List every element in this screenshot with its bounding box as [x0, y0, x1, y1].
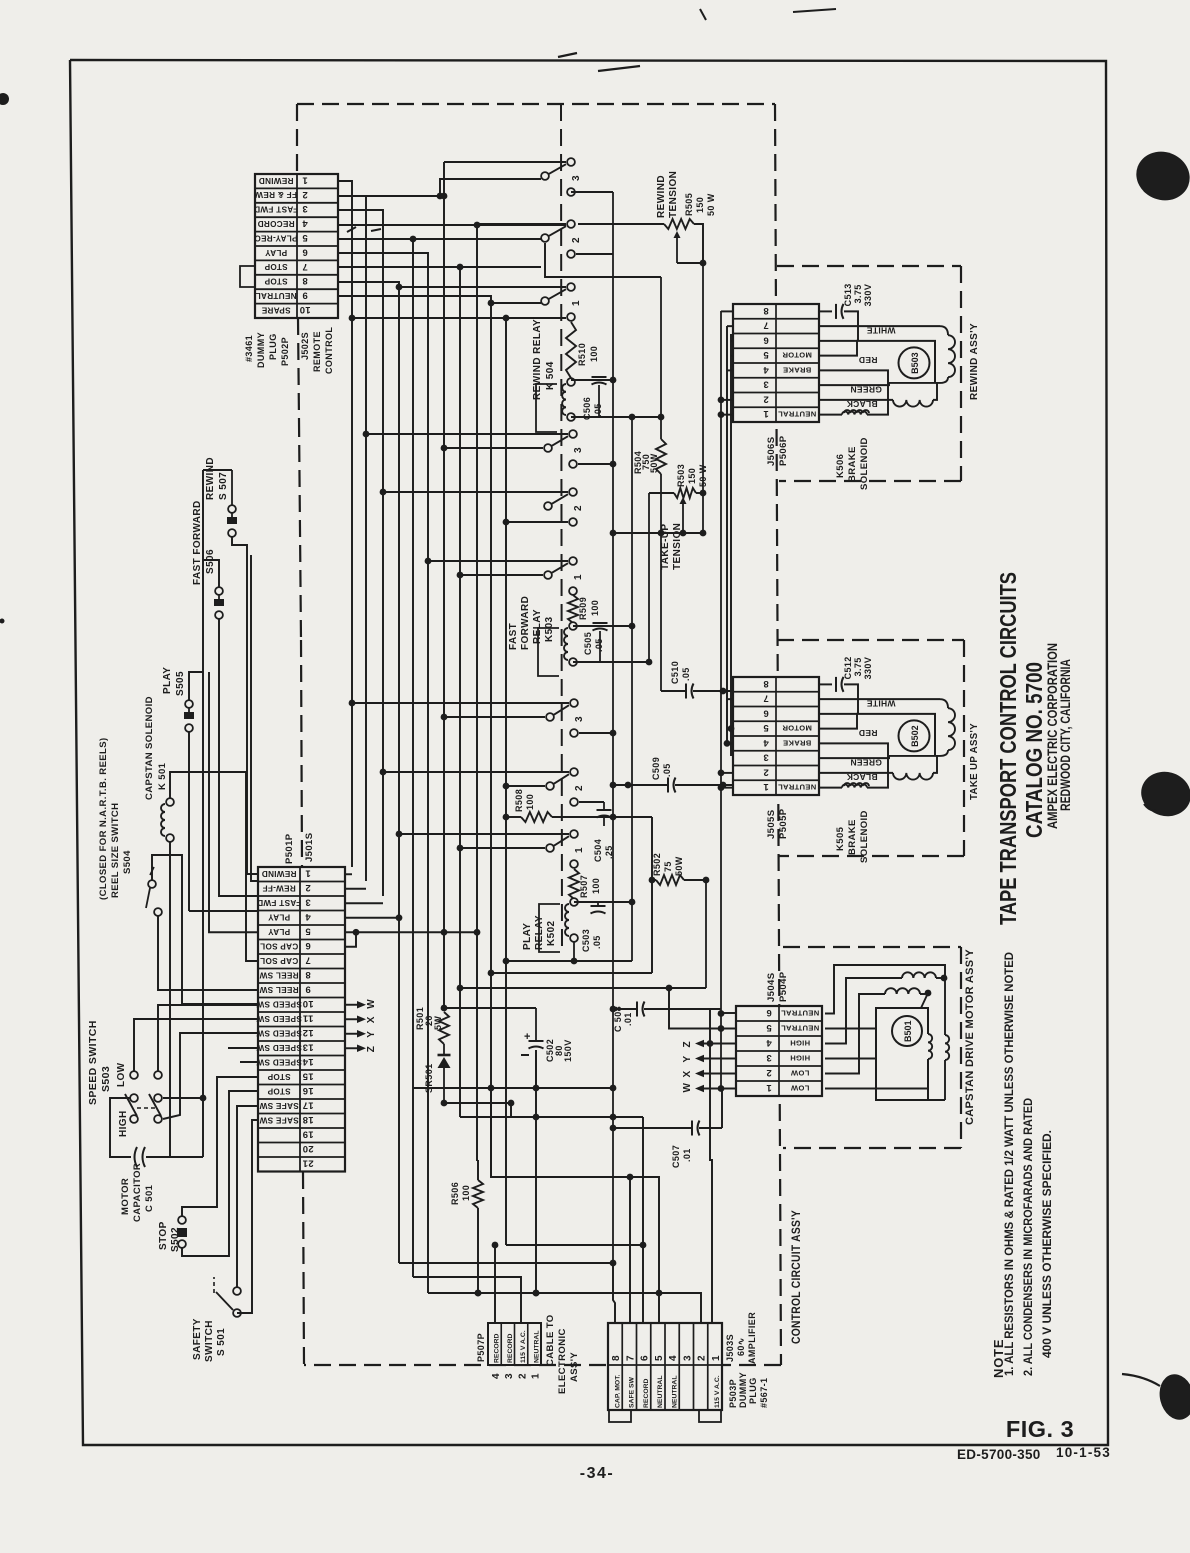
svg-text:ED-5700-350: ED-5700-350 — [957, 1447, 1041, 1462]
svg-text:3: 3 — [302, 203, 308, 214]
wire row5 left — [209, 672, 258, 932]
relay coil K504 — [536, 378, 575, 432]
svg-text:K 504: K 504 — [545, 361, 556, 390]
resistor R505 — [664, 219, 703, 263]
label low — [116, 1062, 127, 1087]
resistor R506 — [473, 1180, 483, 1208]
label K505 brake solenoid — [835, 810, 870, 863]
svg-text:REEL SW: REEL SW — [259, 970, 298, 979]
svg-text:S506: S506 — [205, 549, 216, 574]
wire K503-2 bottom feed — [503, 519, 568, 526]
svg-text:7: 7 — [625, 1355, 636, 1361]
svg-text:R505: R505 — [684, 193, 694, 216]
svg-text:LOW: LOW — [116, 1062, 127, 1087]
relay K504 contact 1 — [541, 283, 582, 321]
svg-text:REWIND: REWIND — [656, 175, 667, 218]
svg-text:K502: K502 — [546, 920, 557, 946]
capacitor C509 — [610, 778, 736, 793]
svg-text:Y: Y — [366, 1031, 377, 1038]
svg-text:SPEED SW: SPEED SW — [256, 999, 302, 1008]
note line 3 — [1040, 1130, 1054, 1358]
label J504S — [766, 973, 777, 1002]
svg-text:R510: R510 — [577, 343, 587, 366]
svg-text:6: 6 — [763, 707, 769, 718]
capacitor C502 — [521, 1008, 544, 1088]
svg-text:DUMMY: DUMMY — [738, 1372, 748, 1408]
connector P507P — [488, 1323, 541, 1365]
title line 4 — [1058, 659, 1073, 811]
doc number ED-5700-350 — [957, 1447, 1041, 1462]
wire K502-2 bottom — [579, 801, 604, 803]
svg-text:Y: Y — [682, 1055, 693, 1062]
label rewind relay K504 — [532, 319, 556, 400]
capacitor C512 — [819, 656, 873, 714]
connector J506S/P506P — [733, 304, 819, 422]
label R501 — [415, 1007, 443, 1030]
svg-text:P505P: P505P — [778, 808, 789, 839]
svg-text:1: 1 — [573, 574, 584, 580]
note line 1 — [1002, 952, 1016, 1376]
svg-text:B501: B501 — [903, 1020, 913, 1042]
svg-text:REWIND ASS'Y: REWIND ASS'Y — [968, 323, 980, 400]
label P504P — [778, 971, 789, 1002]
svg-text:K 501: K 501 — [157, 762, 168, 790]
resistor R503 — [674, 488, 696, 533]
svg-text:RECORD: RECORD — [643, 1378, 650, 1408]
capacitor C504 — [597, 802, 612, 826]
svg-text:3: 3 — [574, 716, 585, 722]
pin 3 P507P — [504, 1373, 515, 1379]
svg-text:PLAY-REC: PLAY-REC — [254, 233, 297, 242]
svg-text:MOTOR: MOTOR — [782, 724, 812, 733]
wire K503-3 pivot feed — [441, 445, 543, 452]
svg-text:2: 2 — [571, 237, 582, 243]
svg-text:400 V UNLESS OTHERWISE SPECIFI: 400 V UNLESS OTHERWISE SPECIFIED. — [1040, 1130, 1054, 1358]
svg-text:LOW: LOW — [790, 1068, 809, 1077]
svg-text:P506P: P506P — [778, 435, 789, 466]
wire K503-1 top feed — [425, 558, 568, 565]
svg-text:C504: C504 — [593, 839, 603, 862]
svg-text:TENSION: TENSION — [668, 171, 679, 218]
svg-text:C510: C510 — [670, 661, 680, 684]
wire K502 coil ties — [571, 626, 636, 964]
svg-text:J504S: J504S — [766, 973, 777, 1002]
pin 4 P507P — [491, 1373, 502, 1379]
svg-text:PLAY: PLAY — [268, 927, 291, 936]
svg-text:MOTOR: MOTOR — [782, 351, 812, 360]
switch S501 safety — [214, 1277, 241, 1317]
svg-text:R503: R503 — [676, 464, 686, 487]
svg-text:#567-1: #567-1 — [759, 1378, 769, 1408]
svg-text:4: 4 — [766, 1037, 772, 1048]
svg-text:3: 3 — [763, 752, 769, 763]
svg-text:HIGH: HIGH — [790, 1038, 810, 1047]
wire R508 left — [503, 814, 521, 821]
svg-text:REEL SIZE SWITCH: REEL SIZE SWITCH — [110, 803, 121, 898]
svg-text:NEUTRAL: NEUTRAL — [255, 291, 296, 300]
stray mark top 1 — [558, 53, 577, 57]
connector J504S/P504P — [736, 1006, 822, 1096]
svg-text:WHITE: WHITE — [867, 699, 896, 709]
svg-text:3: 3 — [573, 447, 584, 453]
svg-text:W: W — [366, 999, 377, 1009]
svg-text:SPARE: SPARE — [261, 305, 290, 314]
capacitor C506 — [592, 377, 607, 417]
svg-text:C505: C505 — [583, 632, 593, 655]
svg-text:6: 6 — [640, 1355, 651, 1361]
svg-text:S504: S504 — [122, 850, 133, 874]
wire P507P col4 riser — [494, 1245, 496, 1323]
resistor R510 — [566, 322, 576, 378]
svg-text:S 507: S 507 — [218, 472, 229, 500]
relay K503 contact 2 — [544, 488, 584, 526]
wire row2 left — [251, 555, 258, 881]
take up assy dashed box — [777, 640, 964, 856]
svg-text:CAP SOL: CAP SOL — [260, 956, 298, 965]
wire K503-1 pivot feed — [457, 572, 543, 579]
svg-text:9: 9 — [305, 983, 311, 994]
svg-text:2. ALL CONDENSERS IN MICROFARA: 2. ALL CONDENSERS IN MICROFARADS AND RAT… — [1021, 1098, 1035, 1376]
svg-text:FIG. 3: FIG. 3 — [1006, 1416, 1074, 1442]
resistor R501 — [439, 1012, 449, 1044]
svg-text:5: 5 — [766, 1022, 772, 1033]
node W (speed) — [345, 999, 377, 1009]
label C506 — [582, 397, 603, 420]
wire K502-2 pivot feed — [503, 783, 545, 790]
svg-text:100: 100 — [461, 1185, 471, 1201]
svg-text:1: 1 — [711, 1355, 722, 1361]
wire K502 bottom tie — [503, 958, 632, 965]
svg-text:FF & REW: FF & REW — [255, 190, 297, 199]
wire right bus 731 — [730, 334, 732, 756]
relay coil K503 — [538, 622, 577, 676]
wire spare bus — [349, 162, 566, 1245]
wire K502-2 top feed — [380, 769, 569, 776]
wire S507 to row1 — [232, 537, 258, 874]
svg-text:R507: R507 — [579, 875, 589, 898]
svg-text:5: 5 — [654, 1355, 665, 1361]
svg-text:PLUG: PLUG — [268, 333, 278, 360]
stray mark top 3 — [700, 9, 706, 20]
capacitor C507 — [610, 1090, 722, 1136]
svg-text:21: 21 — [302, 1157, 314, 1168]
svg-text:C 501: C 501 — [144, 1184, 155, 1212]
wire R501 top — [441, 1005, 536, 1012]
wire R503 left — [649, 493, 674, 662]
svg-text:NEUTRAL: NEUTRAL — [781, 1008, 819, 1017]
wire K503-3 bottom — [578, 461, 616, 468]
svg-text:C 508: C 508 — [613, 1006, 623, 1032]
label rewind assy — [968, 323, 980, 400]
dummy plug shorting tab — [240, 266, 255, 287]
wire R503 right — [696, 490, 706, 537]
svg-text:AMPLIFIER: AMPLIFIER — [747, 1312, 757, 1364]
svg-text:7: 7 — [763, 693, 769, 704]
wire S503 row14 — [240, 1061, 258, 1063]
svg-text:R508: R508 — [514, 789, 524, 812]
resistor R504 — [656, 439, 666, 474]
svg-text:330V: 330V — [863, 657, 873, 680]
wire K504 cap bottom — [571, 414, 664, 421]
svg-text:NEUTRAL: NEUTRAL — [778, 410, 816, 419]
wire tie 1088 — [413, 1085, 616, 1092]
wire S502 bottom to row16 — [182, 1091, 258, 1256]
svg-text:SPEED SW: SPEED SW — [256, 1014, 302, 1023]
svg-text:2: 2 — [697, 1355, 708, 1361]
relay gang dashed line — [561, 104, 562, 950]
label stop S502 — [158, 1221, 181, 1252]
wire bottom h4 — [413, 1277, 521, 1323]
svg-text:ASS'Y: ASS'Y — [569, 1352, 580, 1382]
relay K504 contact 2 — [541, 220, 582, 258]
svg-text:X: X — [366, 1016, 377, 1023]
wire J502S pin3 — [338, 210, 383, 896]
svg-text:6: 6 — [766, 1007, 772, 1018]
wire K504-3 pivot feed — [437, 179, 541, 199]
label capstan drive motor assy — [964, 949, 976, 1125]
relay K503 contact 3 — [544, 430, 584, 468]
stray mark top 2 — [598, 66, 640, 71]
label fast forward S506 — [192, 500, 216, 585]
label capstan solenoid K501 — [144, 696, 168, 800]
svg-text:C507: C507 — [671, 1145, 681, 1168]
svg-text:1. ALL RESISTORS IN OHMS & RAT: 1. ALL RESISTORS IN OHMS & RATED 1/2 WAT… — [1002, 952, 1016, 1376]
title line 1 — [995, 572, 1021, 925]
svg-text:4: 4 — [305, 911, 311, 922]
label play S505 — [162, 667, 186, 696]
switch S502 stop — [177, 1216, 187, 1248]
svg-text:NEUTRAL: NEUTRAL — [781, 1023, 819, 1032]
svg-text:3.75: 3.75 — [853, 657, 863, 676]
wire tension tie — [610, 530, 703, 537]
svg-text:REDWOOD CITY, CALIFORNIA: REDWOOD CITY, CALIFORNIA — [1058, 659, 1073, 811]
svg-text:6: 6 — [305, 940, 311, 951]
label R504 — [633, 451, 659, 474]
label motor capacitor C501 — [120, 1163, 155, 1222]
wire K504-3 top feed — [444, 161, 566, 163]
wire R506 — [475, 1160, 482, 1296]
svg-text:ELECTRONIC: ELECTRONIC — [557, 1328, 568, 1394]
wire bottom h5 — [428, 1290, 701, 1323]
svg-text:RECORD: RECORD — [257, 219, 294, 228]
wire K502 area tie — [488, 970, 652, 977]
svg-text:NEUTRAL: NEUTRAL — [533, 1331, 540, 1363]
svg-text:K505: K505 — [835, 826, 846, 851]
svg-text:P501P: P501P — [284, 833, 295, 864]
svg-text:CAPSTAN DRIVE MOTOR ASS'Y: CAPSTAN DRIVE MOTOR ASS'Y — [964, 949, 976, 1125]
node Z (capstan) — [682, 1040, 736, 1048]
svg-text:FAST FORWARD: FAST FORWARD — [192, 500, 203, 585]
wire S503 row12 — [163, 1033, 258, 1119]
wire J501S row3 — [345, 902, 383, 904]
svg-text:J503S: J503S — [725, 1334, 735, 1362]
capacitor C508 — [610, 1002, 721, 1017]
svg-text:NEUTRAL: NEUTRAL — [778, 783, 816, 792]
scan blob right middle — [1136, 766, 1190, 821]
svg-text:7: 7 — [302, 261, 308, 272]
svg-text:19: 19 — [302, 1128, 313, 1139]
svg-text:3: 3 — [571, 175, 582, 181]
svg-text:MOTOR: MOTOR — [120, 1178, 131, 1215]
svg-text:8: 8 — [763, 305, 769, 316]
svg-text:2: 2 — [517, 1373, 528, 1379]
switch S506 fast forward — [214, 587, 224, 619]
svg-text:2: 2 — [763, 393, 769, 404]
svg-text:1: 1 — [305, 867, 311, 878]
svg-text:K503: K503 — [544, 616, 555, 642]
svg-text:2: 2 — [573, 505, 584, 511]
stray tick row4 a — [347, 227, 356, 232]
svg-text:DUMMY: DUMMY — [256, 332, 266, 368]
svg-text:Z: Z — [682, 1041, 693, 1048]
svg-text:C512: C512 — [843, 656, 853, 679]
svg-text:TAKE UP ASS'Y: TAKE UP ASS'Y — [968, 723, 980, 800]
label P506P — [778, 435, 789, 466]
pin 1 P507P — [531, 1373, 542, 1379]
label C509 — [651, 757, 672, 780]
scan dot left edge — [0, 93, 9, 105]
wire J504S row5 feed — [666, 985, 736, 1029]
label P501P — [284, 833, 295, 864]
wire J502S pin8 — [338, 282, 399, 1263]
label high — [118, 1110, 129, 1137]
svg-text:+: + — [524, 1031, 531, 1043]
wire J502S pin1 — [338, 181, 352, 867]
label C502 — [545, 1039, 573, 1062]
wire S503 row13 — [228, 1047, 258, 1049]
wire K504-2 bottom tie — [576, 253, 613, 255]
svg-text:10-1-53: 10-1-53 — [1056, 1445, 1111, 1460]
svg-text:1: 1 — [574, 847, 585, 853]
switch S505 play — [184, 700, 194, 732]
relay K502 contact 3 — [546, 699, 585, 737]
svg-text:4: 4 — [668, 1355, 679, 1361]
wire J501S row6 tie — [345, 932, 356, 947]
label R509 — [578, 597, 600, 620]
wire S506 to row3 — [219, 619, 258, 896]
label R503 — [676, 464, 708, 487]
label J503S amplifier — [725, 1312, 757, 1364]
svg-text:3: 3 — [682, 1355, 693, 1361]
svg-text:CABLE TO: CABLE TO — [545, 1314, 556, 1366]
wire K501 bottom — [169, 842, 171, 1157]
label K506 brake solenoid — [835, 437, 870, 490]
svg-text:12: 12 — [302, 1027, 313, 1038]
control circuit assy label — [791, 1210, 803, 1344]
capacitor C503 — [591, 902, 606, 914]
title line 3 — [1045, 643, 1060, 829]
svg-text:W: W — [682, 1083, 693, 1093]
svg-text:REWIND: REWIND — [258, 176, 293, 185]
svg-text:C509: C509 — [651, 757, 661, 780]
svg-text:TENSION: TENSION — [672, 523, 683, 570]
svg-text:.05: .05 — [594, 638, 604, 652]
switch S504 reel size — [146, 867, 162, 916]
svg-text:15: 15 — [302, 1070, 314, 1081]
svg-text:7: 7 — [763, 320, 769, 331]
wire K504-2 top feed — [477, 223, 566, 225]
svg-text:BLACK: BLACK — [846, 399, 878, 409]
svg-text:BRAKE: BRAKE — [783, 738, 812, 747]
note line 2 — [1021, 1098, 1035, 1376]
svg-text:100: 100 — [525, 794, 535, 810]
label take-up tension — [660, 523, 683, 570]
svg-text:Z: Z — [366, 1046, 377, 1053]
svg-text:18: 18 — [302, 1114, 313, 1125]
resistor R502 — [656, 875, 684, 885]
wire bus 721 to J504 — [721, 1012, 736, 1014]
svg-text:REMOTE: REMOTE — [312, 331, 322, 372]
svg-text:WHITE: WHITE — [867, 326, 896, 336]
connector P503P/J503S — [608, 1323, 722, 1410]
svg-text:RED: RED — [859, 355, 878, 365]
pin 2 P507P — [517, 1373, 528, 1379]
wire R505 right — [694, 224, 706, 533]
svg-text:CAP. MOT.: CAP. MOT. — [614, 1374, 621, 1408]
svg-text:BRAKE: BRAKE — [847, 819, 858, 855]
svg-text:REWIND: REWIND — [205, 457, 216, 500]
wire K504-1 top feed — [396, 284, 566, 291]
relay K502 contact 1 — [546, 830, 585, 868]
svg-text:2: 2 — [766, 1067, 772, 1078]
capstan assy dashed box — [783, 947, 961, 1148]
scan blob right bottom — [1122, 1371, 1190, 1424]
svg-text:5: 5 — [763, 722, 769, 733]
svg-text:S502: S502 — [170, 1227, 181, 1252]
svg-text:5W: 5W — [433, 1016, 443, 1030]
label C507 — [671, 1145, 692, 1168]
label R502 — [652, 853, 684, 876]
svg-text:.05: .05 — [662, 763, 672, 777]
svg-text:BLACK: BLACK — [846, 772, 878, 782]
wire SR to P507P col1 — [533, 1050, 540, 1296]
svg-text:8: 8 — [305, 969, 311, 980]
svg-text:330V: 330V — [863, 284, 873, 307]
wire K502-3 bottom — [579, 730, 616, 737]
svg-text:17: 17 — [302, 1099, 313, 1110]
svg-text:PLAY: PLAY — [268, 912, 291, 921]
svg-text:SOLENOID: SOLENOID — [859, 437, 870, 490]
border frame — [70, 60, 1108, 1445]
svg-text:SAFETY: SAFETY — [192, 1318, 203, 1360]
svg-text:.05: .05 — [681, 667, 691, 681]
wire S505 to row4 — [189, 732, 258, 911]
svg-text:50 W: 50 W — [698, 464, 708, 487]
svg-text:10: 10 — [302, 998, 313, 1009]
svg-text:50W: 50W — [674, 856, 684, 876]
wire tie 988 — [460, 987, 706, 989]
svg-text:PLAY: PLAY — [265, 248, 288, 257]
wire S503 high left loop — [110, 1098, 131, 1157]
svg-text:3.75: 3.75 — [853, 284, 863, 303]
svg-text:2: 2 — [305, 882, 311, 893]
svg-text:SAFE SW: SAFE SW — [259, 1101, 298, 1110]
svg-text:SWITCH: SWITCH — [204, 1320, 215, 1362]
svg-text:.01: .01 — [623, 1012, 633, 1026]
svg-text:.25: .25 — [604, 845, 614, 859]
svg-text:J502S: J502S — [300, 332, 310, 360]
motor B503 rewind — [819, 326, 955, 415]
svg-text:NEUTRAL: NEUTRAL — [657, 1376, 664, 1408]
wire J501S row4 — [345, 914, 402, 921]
svg-text:100: 100 — [591, 878, 601, 894]
svg-text:REWIND: REWIND — [261, 869, 296, 878]
svg-text:J501S: J501S — [304, 833, 315, 862]
label R506 — [450, 1182, 471, 1205]
svg-text:HIGH: HIGH — [118, 1110, 129, 1137]
wire P503P col8 riser — [613, 1263, 615, 1323]
wire right bus 727 — [726, 326, 728, 743]
